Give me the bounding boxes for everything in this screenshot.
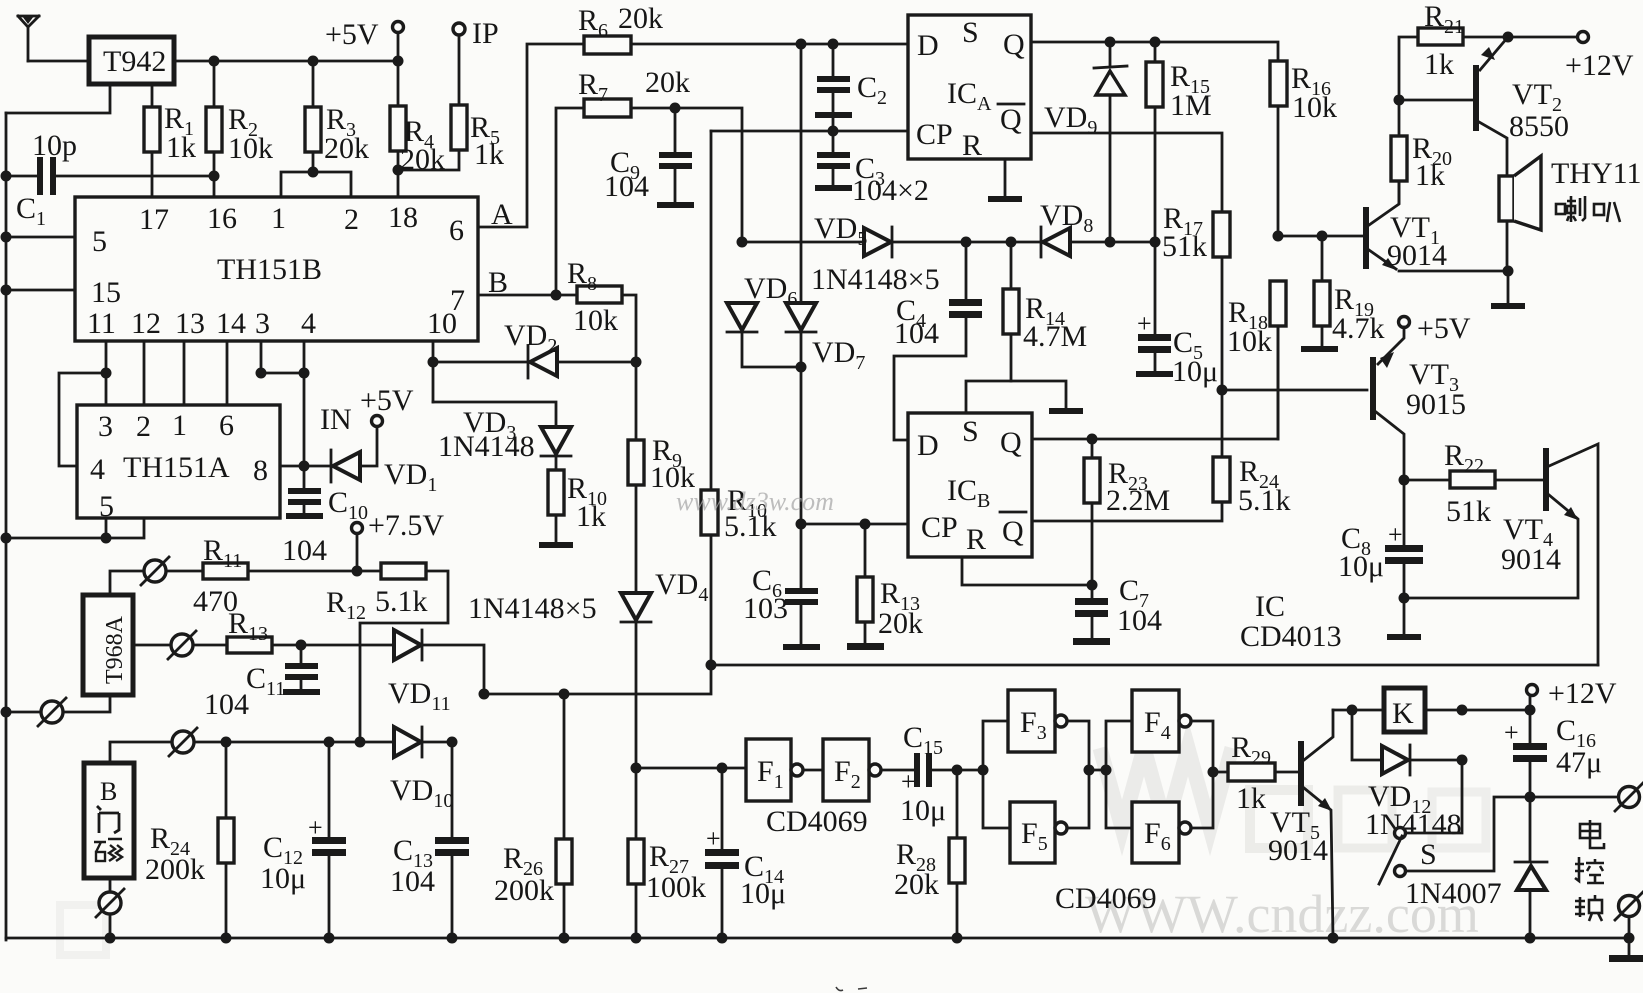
svg-text:B: B <box>488 266 508 299</box>
resistor R22 <box>1399 439 1544 528</box>
svg-text:IN: IN <box>320 403 352 436</box>
wire relay row <box>1333 705 1536 716</box>
svg-text:2: 2 <box>344 203 359 236</box>
svg-text:R8: R8 <box>567 257 597 295</box>
diode VD11 <box>388 630 484 715</box>
wire pins 11-14 to TH151A <box>106 341 227 405</box>
capacitor C11 <box>204 640 320 722</box>
svg-text:VD5: VD5 <box>814 212 867 250</box>
svg-text:104: 104 <box>282 534 327 567</box>
svg-text:10k: 10k <box>1227 325 1272 358</box>
terminal +5V second <box>320 384 414 436</box>
svg-text:1N4007: 1N4007 <box>1405 877 1502 910</box>
IC TH151B <box>75 197 478 341</box>
svg-text:VD2: VD2 <box>504 319 557 357</box>
relay K <box>1384 688 1425 732</box>
svg-text:IC: IC <box>1255 590 1285 623</box>
node A <box>478 44 584 231</box>
svg-text:13: 13 <box>175 307 205 340</box>
inverter F4 <box>1132 690 1191 752</box>
svg-text:4: 4 <box>301 307 316 340</box>
svg-text:R22: R22 <box>1444 439 1484 477</box>
diode VD12 <box>1352 710 1468 841</box>
svg-text:12: 12 <box>131 307 161 340</box>
svg-text:10μ: 10μ <box>1338 550 1384 583</box>
svg-text:CD4013: CD4013 <box>1240 620 1342 653</box>
svg-text:200k: 200k <box>494 874 554 907</box>
wire TH151B pin15 lead <box>6 289 75 292</box>
wire VT3 base row <box>1217 385 1368 396</box>
wire antenna to T942 <box>28 60 87 63</box>
resistor R8 <box>567 257 636 768</box>
resistor R28 <box>894 765 965 939</box>
svg-text:C2: C2 <box>857 71 887 109</box>
resistor R6 <box>578 2 663 54</box>
ground bottom right <box>1609 938 1643 962</box>
diode VD8 <box>1040 199 1093 257</box>
svg-text:CD4069: CD4069 <box>766 805 868 838</box>
wire F4 F6 output join <box>1191 721 1228 828</box>
capacitor C16 <box>1504 710 1602 797</box>
resistor R11 <box>193 534 248 618</box>
wire +7.5V row <box>110 566 381 596</box>
ground C8 <box>1387 593 1421 641</box>
wire pin3 column <box>101 341 305 379</box>
resistor R10 <box>548 470 607 533</box>
wire ICA Q row <box>1031 37 1278 62</box>
resistor R18 <box>1227 281 1286 439</box>
transistor VT5 9014 <box>1268 710 1333 938</box>
wire T968A right row <box>133 644 394 647</box>
svg-text:100k: 100k <box>646 871 706 904</box>
resistor R24 right <box>1213 390 1291 517</box>
svg-text:2: 2 <box>136 410 151 443</box>
label speaker Chinese la-ba <box>1556 196 1620 222</box>
svg-text:1M: 1M <box>1170 89 1212 122</box>
capacitor C9 <box>604 108 694 208</box>
diode VD3 <box>433 402 571 470</box>
svg-text:R: R <box>962 129 982 162</box>
svg-text:10μ: 10μ <box>1172 355 1218 388</box>
svg-text:7: 7 <box>450 284 465 317</box>
capacitor C6 <box>743 564 820 650</box>
resistor R23 <box>1084 439 1170 585</box>
resistor R20 <box>1391 100 1452 203</box>
svg-text:+12V: +12V <box>1548 677 1617 710</box>
label IC CD4013 <box>1240 590 1342 653</box>
svg-text:K: K <box>1392 697 1414 730</box>
svg-text:D: D <box>917 29 939 62</box>
wire VD11 net row <box>479 665 712 700</box>
wire F1 input row <box>631 763 747 774</box>
svg-text:51k: 51k <box>1446 495 1491 528</box>
wire VT1 base row <box>1273 231 1364 242</box>
svg-text:18: 18 <box>388 201 418 234</box>
transistor VT4 9014 <box>1404 444 1598 665</box>
connector jack 1 <box>141 557 169 585</box>
flip-flop ICA CD4013 <box>908 15 1031 162</box>
svg-text:1N4148: 1N4148 <box>438 430 535 463</box>
svg-text:TH151A: TH151A <box>123 451 230 484</box>
resistor R9 <box>628 434 695 494</box>
resistor R7 <box>556 66 742 295</box>
svg-text:17: 17 <box>139 203 169 236</box>
svg-text:D: D <box>917 429 939 462</box>
svg-text:+7.5V: +7.5V <box>368 509 444 542</box>
watermark background <box>60 748 1486 955</box>
svg-text:10p: 10p <box>32 129 77 162</box>
svg-text:1k: 1k <box>474 138 504 171</box>
svg-text:A: A <box>491 198 513 231</box>
diode VD4 <box>468 568 708 625</box>
svg-text:3: 3 <box>98 410 113 443</box>
svg-text:20k: 20k <box>645 66 690 99</box>
wire ICB R pin <box>962 557 1098 591</box>
resistor R24 left <box>145 742 234 938</box>
capacitor C14 <box>705 768 786 938</box>
resistor R26 <box>494 694 572 938</box>
svg-text:R21: R21 <box>1424 0 1464 38</box>
receiver module T942 <box>89 37 174 84</box>
connector jack 2 <box>168 631 196 659</box>
svg-text:47μ: 47μ <box>1556 746 1602 779</box>
svg-text:THY11: THY11 <box>1551 157 1642 190</box>
svg-text:+: + <box>1388 520 1403 549</box>
wire door-sensor row <box>110 737 458 764</box>
svg-text:9015: 9015 <box>1406 388 1466 421</box>
wire T942 to left bus <box>6 84 110 113</box>
label door Chinese men <box>97 806 119 833</box>
svg-text:C11: C11 <box>246 662 285 700</box>
svg-text:20k: 20k <box>618 2 663 35</box>
svg-text:1k: 1k <box>1424 48 1454 81</box>
resistor R21 <box>1399 0 1508 100</box>
svg-text:20k: 20k <box>878 607 923 640</box>
diode VD9 <box>1044 44 1127 242</box>
svg-text:T942: T942 <box>103 45 166 78</box>
svg-text:3: 3 <box>255 307 270 340</box>
svg-text:C10: C10 <box>328 486 368 524</box>
svg-text:Q: Q <box>1002 515 1024 548</box>
svg-text:1k: 1k <box>166 131 196 164</box>
wire ICA Qbar row <box>1031 133 1222 212</box>
wire ICB Q row <box>1032 325 1278 445</box>
diode VD7 <box>786 44 865 588</box>
capacitor C4 <box>894 242 982 440</box>
inverter F1 <box>746 739 803 801</box>
capacitor C8 <box>1338 480 1423 598</box>
wire ICB S to ground <box>966 381 1083 414</box>
svg-text:9014: 9014 <box>1268 834 1328 867</box>
svg-text:104: 104 <box>390 865 435 898</box>
svg-text:1k: 1k <box>1236 782 1266 815</box>
ground VT1 emitter <box>1491 271 1525 309</box>
resistor R2 <box>206 61 273 197</box>
svg-text:16: 16 <box>207 202 237 235</box>
capacitor C15 <box>881 721 957 827</box>
svg-text:4.7M: 4.7M <box>1023 320 1087 353</box>
svg-text:CD4069: CD4069 <box>1055 882 1157 915</box>
svg-text:Q: Q <box>1003 28 1025 61</box>
antenna <box>18 16 39 61</box>
svg-text:9014: 9014 <box>1387 239 1447 272</box>
svg-text:C1: C1 <box>16 192 46 230</box>
resistor R15 <box>1146 44 1212 242</box>
svg-text:www.dz3w.com: www.dz3w.com <box>676 487 834 516</box>
svg-text:S: S <box>962 415 979 448</box>
wire VT2 base row <box>1394 95 1474 106</box>
svg-text:IP: IP <box>472 17 499 50</box>
svg-text:8550: 8550 <box>1509 110 1569 143</box>
resistor R4 <box>390 61 445 197</box>
ground under R10 <box>539 515 573 548</box>
svg-text:5.1k: 5.1k <box>1238 484 1291 517</box>
terminal +7.5V <box>352 509 445 571</box>
speaker THY11 <box>1499 156 1642 271</box>
flip-flop ICB CD4013 <box>908 413 1032 557</box>
svg-text:1: 1 <box>172 409 187 442</box>
svg-text:TH151B: TH151B <box>217 253 322 286</box>
svg-text:15: 15 <box>91 276 121 309</box>
wire TH151A pin5 to bus <box>6 518 144 544</box>
svg-text:R: R <box>966 523 986 556</box>
svg-text:20k: 20k <box>894 868 939 901</box>
caption fragment marks <box>836 987 867 991</box>
diode VD5 <box>811 212 940 296</box>
resistor R27 <box>628 768 706 938</box>
inverter F5 <box>1010 802 1067 863</box>
ground ICA R pin <box>988 159 1022 202</box>
wire CP net bottom row <box>711 664 1598 667</box>
terminal +5V right <box>1399 312 1471 345</box>
capacitor C12 <box>260 742 346 938</box>
svg-text:5: 5 <box>92 225 107 258</box>
svg-text:T968A: T968A <box>102 615 128 684</box>
svg-text:14: 14 <box>216 307 246 340</box>
transistor VT3 9015 <box>1370 327 1466 480</box>
svg-text:104: 104 <box>604 170 649 203</box>
svg-text:VD1: VD1 <box>384 458 437 496</box>
diode VD6 <box>727 272 801 367</box>
wire jack row to B sensor <box>6 695 110 712</box>
terminal IP <box>453 17 499 50</box>
wire R6 to ICA D <box>631 39 908 50</box>
svg-text:103: 103 <box>743 592 788 625</box>
inverter F2 <box>823 739 881 801</box>
svg-text:+: + <box>901 767 916 796</box>
resistor R12 <box>326 563 448 742</box>
wire VT1 emitter row <box>1399 266 1514 277</box>
svg-text:+: + <box>706 824 721 853</box>
capacitor C5 <box>1136 242 1218 388</box>
resistor R16 <box>1270 61 1337 236</box>
capacitor C2 <box>815 44 887 131</box>
resistor R10b 5.1k column <box>701 131 777 671</box>
resistor R19 <box>1301 236 1385 352</box>
resistor R29 <box>1228 731 1298 815</box>
transmitter module T968A <box>83 595 133 695</box>
svg-text:R29: R29 <box>1231 731 1271 769</box>
svg-text:B: B <box>100 777 117 806</box>
svg-text:10μ: 10μ <box>260 862 306 895</box>
svg-text:9014: 9014 <box>1501 543 1561 576</box>
svg-text:Q: Q <box>1000 426 1022 459</box>
wire left bus <box>1 113 12 940</box>
svg-text:R7: R7 <box>578 68 608 106</box>
wire F1 to F2 <box>803 769 823 772</box>
diode VD2 <box>504 319 557 378</box>
svg-text:10k: 10k <box>1292 91 1337 124</box>
svg-text:1: 1 <box>271 202 286 235</box>
label magnet Chinese ci <box>94 839 122 861</box>
switch S <box>1379 760 1530 884</box>
capacitor C3 <box>815 131 929 207</box>
connector jack 5 <box>96 878 124 938</box>
IC TH151A <box>77 405 280 523</box>
diode VD1 <box>331 427 437 496</box>
node B <box>478 266 577 301</box>
terminal +12V right <box>1527 677 1617 710</box>
svg-text:R6: R6 <box>578 4 608 42</box>
wire +5V rail <box>174 56 404 67</box>
wire TH151A pin8 <box>280 461 332 472</box>
wire pins 1-2 tie bar <box>281 167 351 198</box>
svg-text:1k: 1k <box>576 500 606 533</box>
terminal +5V <box>325 18 404 61</box>
resistor R13 second <box>847 524 923 650</box>
svg-text:8: 8 <box>253 454 268 487</box>
svg-text:+: + <box>308 813 323 842</box>
svg-text:1N4148: 1N4148 <box>1365 808 1462 841</box>
svg-text:1N4148×5: 1N4148×5 <box>811 263 940 296</box>
wire TH151A pin4 loop <box>59 373 106 466</box>
svg-text:VD11: VD11 <box>388 677 451 715</box>
svg-text:C15: C15 <box>903 721 943 759</box>
resistor R13 <box>227 607 272 653</box>
svg-text:200k: 200k <box>145 853 205 886</box>
wire F3 F5 output join <box>1067 721 1132 828</box>
connector jack 4 <box>169 728 197 756</box>
svg-text:104×2: 104×2 <box>852 174 929 207</box>
svg-text:104: 104 <box>894 317 939 350</box>
transistor VT2 8550 <box>1473 37 1569 176</box>
diode 1N4007 <box>1405 797 1547 938</box>
svg-text:R11: R11 <box>203 534 242 572</box>
svg-text:+5V: +5V <box>325 18 379 51</box>
svg-text:VD10: VD10 <box>390 774 453 812</box>
resistor R17 <box>1162 202 1230 390</box>
transistor VT1 9014 <box>1363 181 1447 272</box>
door magnet sensor B <box>84 763 134 878</box>
svg-text:6: 6 <box>219 409 234 442</box>
diode VD10 <box>390 727 453 812</box>
wire ICB Qbar row <box>1032 502 1222 521</box>
svg-text:S: S <box>962 16 979 49</box>
svg-text:5.1k: 5.1k <box>375 585 428 618</box>
svg-text:VD7: VD7 <box>812 336 865 374</box>
wire ICA CP row <box>711 126 908 137</box>
resistor R14 <box>1003 242 1087 381</box>
svg-text:104: 104 <box>1117 604 1162 637</box>
wire F3 F5 input split <box>957 721 1010 828</box>
connector jack lock 1 <box>1615 783 1643 811</box>
svg-text:11: 11 <box>87 307 116 340</box>
capacitor C13 <box>390 742 469 938</box>
svg-text:20k: 20k <box>324 132 369 165</box>
capacitor C7 <box>1073 574 1162 645</box>
svg-text:10k: 10k <box>573 304 618 337</box>
svg-text:+: + <box>1504 718 1519 747</box>
resistor R3 <box>305 61 369 172</box>
wire pin4 column <box>299 341 310 466</box>
svg-text:R13: R13 <box>228 607 268 645</box>
connector jack lock 2 <box>1615 892 1643 938</box>
svg-text:R12: R12 <box>326 586 366 624</box>
svg-text:2.2M: 2.2M <box>1106 484 1170 517</box>
svg-text:10μ: 10μ <box>740 877 786 910</box>
svg-text:VD4: VD4 <box>655 568 708 606</box>
inverter F6 <box>1132 802 1191 863</box>
svg-text:VD8: VD8 <box>1040 199 1093 237</box>
svg-text:1N4148×5: 1N4148×5 <box>468 592 597 625</box>
svg-text:10k: 10k <box>228 132 273 165</box>
svg-text:4.7k: 4.7k <box>1332 312 1385 345</box>
wire ICB CP row <box>801 519 908 530</box>
terminal +12V <box>1503 32 1634 83</box>
capacitor C10 <box>282 466 368 567</box>
svg-text:Q: Q <box>1000 103 1022 136</box>
svg-text:+12V: +12V <box>1565 49 1634 82</box>
svg-text:51k: 51k <box>1162 230 1207 263</box>
capacitor C1 <box>6 129 220 230</box>
wire TH151B pin5 lead <box>6 236 75 239</box>
svg-text:CP: CP <box>921 511 958 544</box>
inverter F3 <box>1008 690 1067 752</box>
svg-text:1k: 1k <box>1415 159 1445 192</box>
svg-text:+5V: +5V <box>1417 312 1471 345</box>
svg-text:104: 104 <box>204 688 249 721</box>
svg-text:4: 4 <box>90 453 105 486</box>
resistor R1 <box>144 84 196 197</box>
resistor R5 <box>398 35 504 171</box>
svg-text:+: + <box>1137 309 1152 338</box>
svg-text:6: 6 <box>449 214 464 247</box>
svg-text:+5V: +5V <box>360 384 414 417</box>
svg-text:S: S <box>1420 838 1437 871</box>
wire VD5 row <box>737 237 1161 248</box>
svg-text:10μ: 10μ <box>900 794 946 827</box>
wire bottom bus <box>6 933 1635 944</box>
svg-text:CP: CP <box>916 118 953 151</box>
wire VD2 row <box>428 341 642 402</box>
wire lock terminal row <box>1525 792 1619 803</box>
connector jack 3 <box>38 698 66 726</box>
label lock Chinese dian-kong-suo <box>1575 820 1604 921</box>
